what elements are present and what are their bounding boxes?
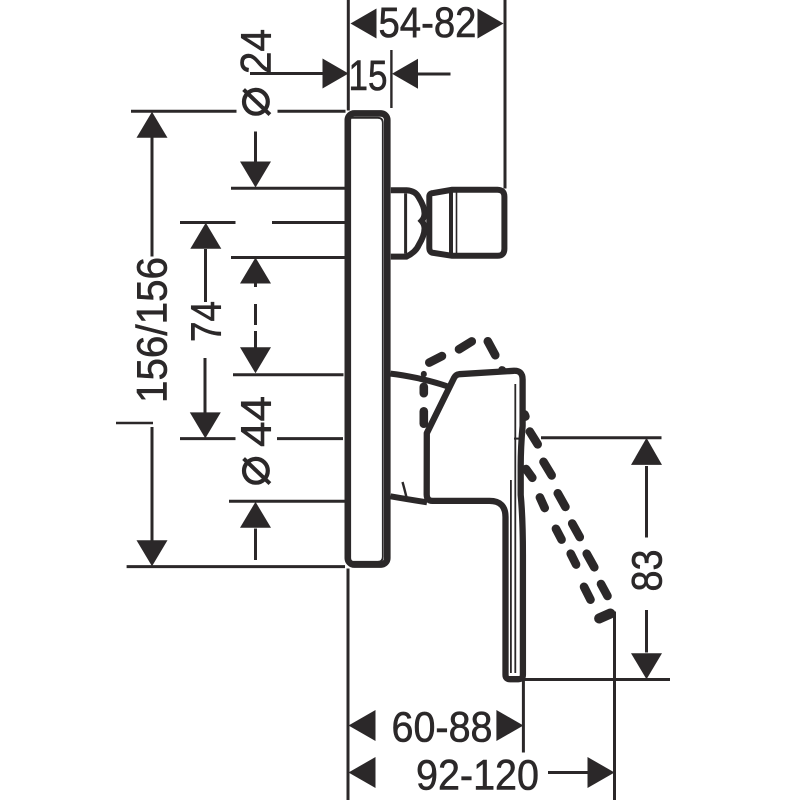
node: arrow left of 60-88 — [349, 710, 376, 741]
node: arrow 74 bottom (down) — [190, 412, 221, 438]
wire: dim 156/156 shaft lower — [151, 427, 154, 542]
node: arrow O44 bottom (up) — [240, 502, 271, 528]
wire: extension line y=257.5 (spout bottom) — [231, 256, 346, 259]
node: arrow right of 60-88 — [496, 710, 523, 741]
spout dome inner line — [404, 193, 407, 253]
wire: dim O24-O44 dashes between arrows — [254, 283, 257, 288]
wire: extension line x=348 below plate — [347, 569, 350, 800]
wire: extension line y=222.5 right segment — [272, 221, 346, 224]
svg-text:74: 74 — [184, 301, 231, 342]
escutcheon plate inner line — [350, 118, 383, 562]
svg-text:15: 15 — [349, 53, 388, 100]
dashed lever down: right line dash 4 — [572, 524, 580, 538]
svg-text:54-82: 54-82 — [379, 0, 477, 47]
dashed lever down: left line dash 1 — [526, 469, 532, 478]
node: arrow right of 92-120 — [588, 757, 615, 788]
dashed lever up: top edge dash 2 — [459, 341, 472, 349]
wire: extension line x=614.5 (dashed lever tip, "92-120" dim) — [613, 612, 616, 800]
wire: extension line y=111 left segment — [131, 110, 237, 113]
wire: dim 92-120 line segment — [548, 771, 589, 774]
wire: extension line y=222.5 left segment (spout axis) — [180, 221, 236, 224]
dashed lever down: edge crossing dash — [520, 415, 529, 417]
spout nut facet line thick — [449, 192, 453, 255]
node: arrow O24 bottom (up) — [240, 258, 271, 284]
dashed lever down: right line dash 6 — [601, 584, 608, 596]
wire: dim O44 lower shaft — [254, 529, 257, 561]
dashed lever down: right line dash 3 — [558, 493, 566, 507]
wire: extension line y=501 (sleeve bottom) — [229, 500, 345, 503]
wire: dim 74 shaft upper — [204, 249, 207, 302]
dashed lever down: right line dash 1 — [530, 432, 538, 445]
node: arrow 83 top (up) — [631, 438, 662, 465]
wire: extension line y=438 right segment (83 dim top) — [541, 436, 662, 439]
dashed lever up: left edge dot — [421, 371, 427, 378]
node: arrow O44 top (down) — [240, 347, 271, 373]
wire: extension line x=391.4 (plate front face, "15" dim) — [390, 50, 392, 108]
node: arrow right of 54-82 — [478, 9, 504, 39]
handle inner line upper — [514, 384, 516, 673]
wire: extension line x=348 above plate — [347, 0, 350, 111]
dashed lever up: left edge dash 2 — [419, 411, 428, 423]
dashed lever down: left line dash 4 — [571, 554, 576, 565]
spout dome on plate — [391, 190, 425, 256]
wire: extension line y=111 right segment — [278, 110, 346, 113]
label O24 diameter symbol — [244, 90, 268, 114]
handle inner line lower — [510, 480, 512, 673]
node: arrow left of 54-82 — [351, 9, 377, 39]
wire: dim 15 line right — [418, 73, 451, 76]
svg-text:24: 24 — [234, 29, 281, 74]
wire: dim 83 shaft lower — [645, 610, 648, 653]
node: arrow right of 15 — [392, 59, 418, 89]
sleeve top arc — [391, 374, 448, 387]
escutcheon plate outer — [348, 113, 388, 564]
svg-text:60-88: 60-88 — [392, 705, 493, 752]
svg-text:44: 44 — [234, 396, 281, 447]
wire: extension line y=375 (sleeve top) — [233, 373, 344, 376]
wire: extension line y=438 left segment (handle axis) — [180, 437, 236, 440]
wire: extension line x=505 (nut face, "54-82" dim) — [504, 0, 507, 189]
wire: extension line y=438 tick on handle — [514, 438, 520, 440]
wire: extension line y=566.5 (plate bottom) — [127, 565, 345, 568]
wire: dim O24 shaft upper — [254, 132, 257, 165]
wire: dim 156/156 shaft upper — [151, 137, 154, 257]
svg-text:92-120: 92-120 — [416, 753, 539, 800]
svg-text:83: 83 — [625, 550, 672, 592]
wire: extension line y=679.6 (lever tip, 83 dim bottom) — [521, 678, 670, 681]
wire: tick near 156/156 text — [116, 422, 153, 424]
node: arrow 156/156 top (up) — [137, 112, 168, 138]
dashed lever down: left line dash 3 — [556, 529, 562, 540]
wire: dim 83 shaft upper — [645, 466, 648, 538]
node: arrow 83 bottom (down) — [631, 653, 662, 679]
wire: dim 74 shaft lower — [204, 358, 207, 413]
svg-text:156/156: 156/156 — [130, 257, 177, 403]
dashed lever up: top edge dash 1 — [429, 356, 442, 363]
spout nut outline — [429, 190, 504, 256]
node: arrow left of 15 — [323, 59, 349, 89]
dashed lever down: tip cap — [599, 614, 610, 619]
node: arrow 74 top (up) — [190, 223, 221, 249]
node: arrow O24 top (down) — [240, 162, 271, 188]
dashed lever up: end cap dash — [488, 341, 496, 355]
handle and lever solid outline — [427, 371, 523, 679]
node: arrow 156/156 bottom (down) — [137, 540, 168, 566]
dashed lever down: right line dash 2 — [544, 462, 552, 476]
spout nut facet line thin — [456, 191, 458, 255]
dashed lever down: right line dash 5 — [587, 554, 595, 568]
label O44 diameter symbol — [244, 459, 268, 483]
node: arrow left of 92-120 — [349, 757, 376, 788]
wire: extension line y=438 mid segment — [277, 437, 343, 440]
wire: extension line x=521.5 (lever face, "60-88" dim) — [522, 679, 525, 753]
dashed lever up: left edge dash 1 — [419, 387, 428, 393]
sleeve bottom edge — [391, 496, 428, 502]
wire: extension line y=188 (spout top) — [231, 187, 346, 190]
dashed lever up: merge dot on handle top — [498, 366, 506, 373]
wire: dim 15 line left — [250, 72, 323, 75]
dashed lever down: left line dash 2 — [540, 497, 545, 508]
dashed lever down: left line dash 5 — [584, 587, 591, 600]
sleeve bottom small arc — [403, 482, 408, 502]
